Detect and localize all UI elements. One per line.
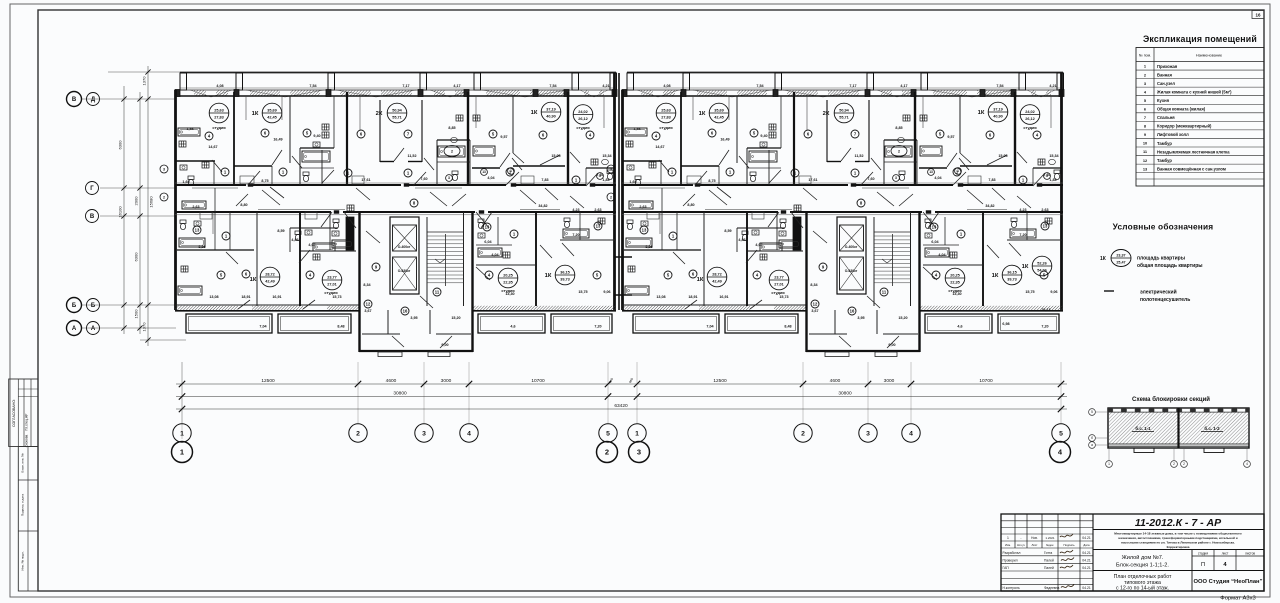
svg-text:1К: 1К: [531, 110, 538, 116]
svg-text:63420: 63420: [614, 403, 628, 409]
hall circles: [221, 168, 229, 176]
svg-text:25,47: 25,47: [1116, 260, 1125, 264]
svg-text:7,20: 7,20: [572, 233, 579, 237]
plan section 2 (translated copy): [607, 73, 1064, 357]
svg-text:Лист: Лист: [1031, 543, 1038, 547]
svg-text:Проверил: Проверил: [1003, 558, 1018, 562]
blocking scheme middle joint: [1177, 408, 1179, 448]
svg-text:Подпись: Подпись: [1063, 543, 1075, 547]
svg-text:4,83: 4,83: [291, 238, 298, 242]
blocking scheme axis circles: [1089, 409, 1096, 416]
axis bubble A large: [67, 321, 82, 336]
svg-text:1К: 1К: [250, 277, 257, 283]
title block frame: [1001, 514, 1264, 591]
svg-text:1К: 1К: [1022, 264, 1029, 270]
svg-text:3000: 3000: [884, 378, 895, 384]
svg-text:А: А: [91, 326, 96, 332]
svg-text:7,60: 7,60: [596, 173, 603, 177]
dimension line row 3: [176, 408, 1067, 410]
svg-text:7,54: 7,54: [309, 84, 317, 88]
svg-text:Палей: Палей: [1044, 566, 1054, 570]
svg-text:а: а: [1091, 443, 1093, 447]
svg-text:4: 4: [467, 430, 471, 437]
svg-text:9,57: 9,57: [500, 135, 507, 139]
axis bubble B large: [67, 298, 82, 313]
vertical dim line inner: [139, 92, 141, 334]
balcony rail line: [180, 87, 616, 89]
svg-text:16,91: 16,91: [272, 295, 281, 299]
svg-text:22,35: 22,35: [503, 281, 513, 285]
stair treads: [427, 235, 464, 237]
svg-text:2: 2: [356, 430, 360, 437]
svg-text:1: 1: [635, 430, 639, 437]
svg-text:3: 3: [448, 176, 450, 180]
title block stage table: [1191, 550, 1193, 592]
svg-text:Г: Г: [90, 186, 94, 192]
svg-text:1: 1: [180, 448, 184, 457]
svg-text:2: 2: [605, 448, 609, 457]
corridor inner line segments: [192, 187, 238, 189]
svg-text:6,04: 6,04: [484, 240, 492, 244]
svg-text:7,17: 7,17: [402, 84, 409, 88]
svg-text:СОГЛАСОВАНО:: СОГЛАСОВАНО:: [12, 399, 16, 427]
svg-text:насосными станциями по ул. Тит: насосными станциями по ул. Титова в Лени…: [1121, 541, 1235, 545]
svg-text:4,08: 4,08: [216, 84, 223, 88]
axis guide lines vertical: [181, 362, 183, 424]
svg-text:Взам. инв. №: Взам. инв. №: [21, 453, 25, 473]
svg-text:1,69: 1,69: [182, 180, 189, 184]
svg-text:4: 4: [1246, 462, 1248, 466]
svg-text:12500: 12500: [713, 378, 727, 384]
svg-text:2: 2: [1173, 462, 1175, 466]
lower stamp boxes: [18, 447, 38, 592]
svg-text:20,25: 20,25: [503, 273, 513, 277]
svg-text:полотенцесушитель: полотенцесушитель: [1140, 297, 1190, 303]
svg-text:№ пом.: № пом.: [1139, 54, 1151, 58]
blocking scheme bottom details: [1108, 443, 1249, 445]
svg-text:3000: 3000: [441, 378, 452, 384]
svg-text:с 12-го по 14-ый этаж.: с 12-го по 14-ый этаж.: [1116, 585, 1169, 592]
svg-text:лист: лист: [1222, 552, 1229, 556]
lower unit wall x300: [299, 212, 301, 306]
bath C fixtures: [591, 159, 598, 165]
svg-text:4600: 4600: [386, 378, 397, 384]
main top wall with window sills: [175, 89, 616, 91]
svg-text:Ванная совмещённая с сан.узлом: Ванная совмещённая с сан.узлом: [1157, 166, 1226, 171]
outer wall right / section joint: [613, 73, 616, 310]
upper unit wall x347: [346, 92, 348, 185]
room number circles upper: [205, 132, 213, 140]
right lower bath cluster: [560, 239, 616, 241]
svg-text:1.2021: 1.2021: [1045, 536, 1055, 540]
axis bubbles row 2 section numbers: [172, 442, 193, 463]
svg-text:Незадымляемая лестничная клетк: Незадымляемая лестничная клетка: [1157, 149, 1230, 154]
svg-text:В: В: [90, 214, 95, 220]
svg-text:2,63: 2,63: [192, 205, 199, 209]
svg-text:8,34: 8,34: [363, 283, 371, 287]
bath cluster next to core: [329, 212, 331, 250]
svg-text:3: 3: [637, 448, 641, 457]
window opening V marks: [190, 90, 232, 97]
junction connector walls: [614, 256, 632, 258]
left wall tub lower: [178, 286, 202, 295]
svg-text:25,13: 25,13: [1041, 308, 1050, 312]
door thresholds corridor: [248, 184, 253, 187]
svg-text:13: 13: [485, 225, 490, 230]
svg-text:4,04: 4,04: [487, 176, 495, 180]
svg-text:3,85: 3,85: [198, 245, 205, 249]
svg-text:6,98: 6,98: [1002, 322, 1009, 326]
svg-text:54,06: 54,06: [1037, 269, 1047, 273]
svg-text:1К: 1К: [252, 111, 259, 117]
svg-text:3,95: 3,95: [410, 316, 417, 320]
svg-text:6300: 6300: [134, 252, 139, 262]
left wall fixtures upper: [180, 165, 187, 170]
dimension line row 2: [176, 396, 1067, 398]
upper unit wall x468: [467, 92, 469, 185]
svg-text:04.21: 04.21: [1082, 558, 1091, 562]
svg-text:Условные обозначения: Условные обозначения: [1113, 222, 1214, 232]
svg-text:Б: Б: [91, 303, 96, 309]
doors core and tambour: [366, 231, 380, 243]
elevator 630kg: [393, 257, 417, 290]
svg-text:Кухня: Кухня: [1157, 98, 1170, 103]
svg-text:б.с. 1-2: б.с. 1-2: [1204, 426, 1220, 431]
svg-text:общая площадь квартиры: общая площадь квартиры: [1137, 262, 1203, 269]
axis bubble V mid: [86, 210, 99, 223]
svg-text:16100: 16100: [118, 206, 123, 218]
explication table: [1136, 48, 1264, 187]
svg-text:6300: 6300: [118, 140, 123, 150]
svg-text:Изм.: Изм.: [1005, 543, 1011, 547]
svg-text:9,00: 9,00: [441, 343, 448, 347]
lower unit wall x536: [535, 212, 537, 306]
svg-text:Общая комната (жилая): Общая комната (жилая): [1157, 107, 1206, 112]
svg-text:студия: студия: [576, 125, 589, 130]
axis bubble A small: [87, 322, 100, 335]
svg-text:15,75: 15,75: [578, 290, 587, 294]
svg-text:4,23: 4,23: [572, 208, 579, 212]
svg-text:7,60: 7,60: [420, 177, 427, 181]
svg-text:4,6: 4,6: [510, 325, 515, 329]
svg-text:В: В: [72, 97, 77, 103]
svg-text:23,37: 23,37: [1116, 253, 1125, 257]
svg-text:1: 1: [180, 430, 184, 437]
svg-text:39,73: 39,73: [560, 278, 570, 282]
svg-text:5: 5: [1059, 430, 1063, 437]
svg-text:34,82: 34,82: [538, 204, 547, 208]
svg-text:27,83: 27,83: [214, 116, 224, 120]
svg-text:4600: 4600: [830, 378, 841, 384]
svg-text:8,48: 8,48: [337, 325, 344, 329]
svg-text:2,63: 2,63: [594, 208, 601, 212]
svg-text:8,75: 8,75: [261, 179, 268, 183]
svg-text:35,69: 35,69: [267, 108, 277, 112]
svg-text:ГАП: ГАП: [1003, 566, 1010, 570]
lower balcony right pair: [478, 314, 545, 333]
svg-text:11-2012.К - 7 - АР: 11-2012.К - 7 - АР: [1135, 517, 1222, 529]
vestibule fixtures right of core: [476, 264, 536, 266]
entry stoops: [378, 352, 402, 357]
svg-text:1: 1: [1108, 462, 1110, 466]
svg-text:15,34: 15,34: [602, 154, 612, 158]
svg-text:-: -: [1020, 536, 1021, 540]
svg-text:Разработал: Разработал: [1003, 551, 1021, 555]
svg-text:Дата: Дата: [1083, 543, 1090, 547]
svg-text:30800: 30800: [393, 390, 407, 396]
closet rects: [240, 176, 254, 184]
interior texture lines: [245, 96, 247, 120]
svg-text:3: 3: [163, 167, 165, 171]
svg-text:Корректировка: Корректировка: [1167, 545, 1190, 549]
svg-text:А: А: [72, 326, 77, 332]
core protrusion bottom wall: [359, 350, 473, 352]
svg-text:15,05: 15,05: [551, 154, 560, 158]
svg-text:7,83: 7,83: [541, 178, 548, 182]
upper partition x380: [379, 100, 381, 162]
svg-text:55,71: 55,71: [392, 116, 402, 120]
extra door diagonals corridor: [270, 187, 284, 198]
corridor wall double lines: [175, 182, 616, 184]
svg-text:24,02: 24,02: [578, 110, 588, 114]
svg-text:13: 13: [195, 228, 200, 233]
lower balcony mid: [278, 314, 351, 333]
svg-text:16: 16: [1255, 13, 1261, 18]
upper partition x290: [289, 96, 291, 163]
svg-text:13,08: 13,08: [209, 295, 218, 299]
svg-text:5: 5: [1091, 410, 1093, 414]
svg-text:б: б: [1091, 436, 1093, 440]
svg-text:Блок-секция 1-1;1-2.: Блок-секция 1-1;1-2.: [1116, 563, 1169, 569]
svg-text:Формат А3х3: Формат А3х3: [1220, 596, 1255, 602]
svg-text:П: П: [1201, 562, 1205, 568]
upper bath cluster C walls: [513, 165, 565, 167]
svg-text:1,93: 1,93: [186, 127, 193, 131]
signatures: [1060, 534, 1073, 537]
svg-text:Подпись и дата: Подпись и дата: [21, 494, 25, 517]
svg-text:7,04: 7,04: [259, 325, 267, 329]
svg-text:б.с. 1-1: б.с. 1-1: [1135, 426, 1151, 431]
svg-text:Гл.спец.АР: Гл.спец.АР: [25, 413, 29, 431]
svg-text:42,49: 42,49: [265, 280, 275, 284]
apartment entry door diagonals in corridor: [262, 190, 280, 205]
svg-text:Прихожая: Прихожая: [1157, 64, 1178, 69]
room circles lower: [193, 226, 201, 234]
svg-text:Гитта: Гитта: [1044, 551, 1052, 555]
svg-text:Наименование: Наименование: [1196, 54, 1222, 58]
svg-text:8,85: 8,85: [448, 126, 455, 130]
stair top landing line: [427, 231, 464, 233]
svg-text:16: 16: [403, 309, 408, 314]
svg-text:13,30: 13,30: [505, 292, 514, 296]
svg-text:назначения, автостоянками, тра: назначения, автостоянками, трансформатор…: [1118, 536, 1237, 540]
stair core left wall: [358, 212, 360, 352]
svg-text:26,12: 26,12: [578, 117, 588, 121]
svg-text:листов: листов: [1245, 552, 1255, 556]
svg-text:12500: 12500: [261, 378, 275, 384]
svg-text:8,80: 8,80: [240, 203, 247, 207]
top wall piers: [175, 90, 180, 97]
svg-text:11: 11: [435, 290, 440, 295]
svg-text:4: 4: [909, 430, 913, 437]
elevator shaft walls: [390, 217, 419, 294]
blocking scheme top pier band: [1108, 408, 1249, 413]
svg-text:12: 12: [366, 302, 371, 307]
svg-text:Коридор (межквартирный): Коридор (межквартирный): [1157, 124, 1212, 129]
dimension line row 1: [176, 383, 1067, 385]
svg-text:11,52: 11,52: [407, 154, 416, 158]
svg-text:Фадеевна: Фадеевна: [1044, 586, 1060, 590]
area ovals upper: [209, 103, 229, 123]
svg-text:15,20: 15,20: [451, 316, 460, 320]
svg-text:1500: 1500: [134, 309, 139, 319]
svg-text:50,94: 50,94: [392, 108, 402, 112]
svg-text:16,49: 16,49: [273, 138, 282, 142]
svg-text:Тамбур: Тамбур: [1157, 141, 1172, 146]
lower middle bath cluster: [290, 227, 338, 229]
upper partition x510: [512, 96, 514, 153]
svg-text:04.21: 04.21: [1082, 566, 1091, 570]
svg-text:30800: 30800: [838, 390, 852, 396]
blocking scheme body: [1108, 408, 1249, 448]
svg-text:1,83: 1,83: [602, 178, 609, 182]
svg-text:1: 1: [1007, 536, 1009, 540]
svg-text:Инв. № подл.: Инв. № подл.: [21, 551, 25, 570]
area ovals lower: [260, 267, 280, 287]
svg-text:04.21: 04.21: [1082, 536, 1091, 540]
svg-text:2: 2: [801, 430, 805, 437]
svg-text:10700: 10700: [531, 378, 545, 384]
left bathroom walls: [175, 160, 215, 162]
svg-text:10: 10: [1143, 141, 1147, 146]
section 2 extra right room oval: [1032, 256, 1052, 276]
doors lower row: [321, 212, 332, 227]
svg-text:Спальня: Спальня: [1157, 115, 1175, 120]
sheet number box 16: [1252, 11, 1264, 19]
outer wall left: [174, 90, 177, 310]
corridor top wall: [175, 184, 246, 186]
left margin stamp boxes: [9, 379, 38, 447]
unit hall partial walls: [234, 165, 272, 167]
svg-text:04.21: 04.21: [1082, 551, 1091, 555]
lower room wall x257: [256, 212, 258, 306]
svg-text:4,17: 4,17: [453, 84, 460, 88]
axis bubble D: [87, 93, 100, 106]
svg-text:2: 2: [163, 195, 165, 199]
svg-text:23,77: 23,77: [327, 275, 337, 279]
bottom outer wall: [175, 304, 360, 306]
svg-text:О-400кг: О-400кг: [398, 245, 411, 249]
svg-text:Жилая комната с кухней нишей (: Жилая комната с кухней нишей (5м²): [1156, 89, 1232, 94]
vertical dim line 16100: [123, 86, 125, 334]
svg-text:Нов.: Нов.: [1031, 536, 1038, 540]
svg-text:2К: 2К: [376, 111, 383, 117]
svg-text:Скокова: Скокова: [25, 435, 29, 448]
svg-text:36,15: 36,15: [560, 270, 570, 274]
bath A fixtures: [302, 151, 330, 162]
svg-text:7,20: 7,20: [594, 325, 601, 329]
svg-text:40,90: 40,90: [546, 115, 556, 119]
axis bubble G: [86, 182, 99, 195]
upper bath cluster A walls: [300, 147, 334, 149]
left lower bath cluster: [177, 249, 254, 251]
svg-text:52,26: 52,26: [1037, 261, 1047, 265]
svg-text:17,61: 17,61: [361, 178, 370, 182]
lower balcony left: [186, 314, 272, 333]
svg-text:13: 13: [482, 170, 486, 174]
title block horizontal rows left part: [1001, 520, 1093, 522]
stairwell: [426, 217, 428, 306]
svg-text:Лифтовой холл: Лифтовой холл: [1157, 132, 1189, 137]
svg-text:1К: 1К: [545, 273, 552, 279]
upper unit wall x237: [233, 92, 235, 185]
elevator 400kg: [393, 225, 417, 251]
svg-text:42,45: 42,45: [267, 116, 277, 120]
svg-text:4,04: 4,04: [491, 253, 499, 257]
svg-text:18,91: 18,91: [241, 295, 250, 299]
svg-text:04.21: 04.21: [1082, 586, 1091, 590]
svg-text:10700: 10700: [979, 378, 993, 384]
svg-text:37,19: 37,19: [546, 107, 556, 111]
svg-text:Палей: Палей: [1044, 558, 1054, 562]
upper bath cluster B walls: [437, 139, 470, 141]
svg-text:25,63: 25,63: [214, 108, 224, 112]
core protrusion inner walls: [387, 310, 389, 334]
vertical dim line outer 15680: [147, 66, 149, 346]
balcony piers top: [180, 73, 187, 90]
svg-text:1370: 1370: [142, 322, 147, 332]
svg-text:Кол.уч: Кол.уч: [1017, 543, 1025, 547]
svg-text:1370: 1370: [142, 76, 147, 86]
svg-text:Б: Б: [72, 303, 77, 309]
svg-text:27,01: 27,01: [327, 283, 337, 287]
svg-text:О-630кг: О-630кг: [398, 269, 411, 273]
bath B fixtures: [438, 146, 465, 157]
svg-text:7: 7: [1144, 115, 1146, 120]
legend towel dryer symbol: [1104, 290, 1114, 292]
svg-text:14,67: 14,67: [208, 145, 217, 149]
svg-text:9,06: 9,06: [603, 290, 610, 294]
svg-text:Схема блокировки секций: Схема блокировки секций: [1132, 396, 1210, 403]
axis bubble B small: [87, 299, 100, 312]
svg-text:3: 3: [866, 430, 870, 437]
svg-text:электрический: электрический: [1140, 289, 1177, 296]
svg-text:№док.: №док.: [1046, 543, 1054, 547]
corridor bottom wall: [175, 211, 331, 213]
section joint wall: [618, 73, 620, 310]
svg-text:9,40: 9,40: [313, 134, 320, 138]
svg-text:Н.контроль: Н.контроль: [1003, 586, 1020, 590]
svg-text:Д: Д: [91, 97, 96, 103]
svg-text:15,73: 15,73: [332, 295, 341, 299]
stair core right wall: [471, 212, 473, 352]
svg-text:студия: студия: [212, 125, 225, 130]
svg-text:Сан.узел: Сан.узел: [1157, 81, 1175, 86]
axis bubble V large: [67, 92, 82, 107]
svg-text:13: 13: [596, 224, 601, 229]
svg-text:Тамбур: Тамбур: [1157, 158, 1172, 163]
balcony front line top: [180, 72, 616, 74]
svg-text:15680: 15680: [149, 196, 154, 208]
svg-text:Ванная: Ванная: [1157, 72, 1172, 77]
svg-text:Жилой дом №7.: Жилой дом №7.: [1122, 554, 1164, 561]
svg-text:стадия: стадия: [1198, 552, 1208, 556]
svg-text:3: 3: [422, 430, 426, 437]
svg-text:2000: 2000: [134, 196, 139, 206]
svg-text:Экспликация помещений: Экспликация помещений: [1143, 34, 1257, 44]
svg-text:площадь квартиры: площадь квартиры: [1137, 256, 1185, 262]
axis leader lines left: [82, 98, 175, 100]
